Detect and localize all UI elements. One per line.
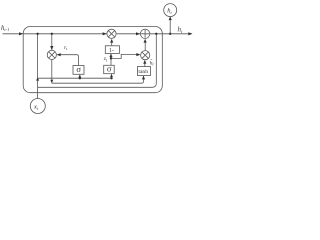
arrow: output right end bbox=[188, 32, 192, 35]
wire: output h line right bbox=[150, 33, 192, 35]
arrow: r into reset multiply bbox=[57, 53, 61, 56]
wire: sigma-r input stub bbox=[79, 75, 81, 78]
junction dot z branch bbox=[110, 57, 112, 59]
wire: h(t-1) input line left bbox=[3, 33, 23, 35]
junction dot J1 bbox=[36, 33, 38, 35]
arrow: x_t up onto bus junction bbox=[36, 77, 39, 80]
multiply node z bbox=[141, 51, 150, 60]
wire: between multiply and plus bbox=[117, 33, 140, 35]
arrow: down into reset multiply bbox=[50, 46, 53, 50]
h_t output circle bbox=[164, 4, 177, 17]
junction dot J3 feedback bbox=[155, 33, 157, 35]
wire: sigma-z riser to 1- box bbox=[110, 54, 112, 66]
svg-text:1-: 1- bbox=[109, 48, 114, 54]
multiply node reset (circle-x) bbox=[47, 50, 56, 59]
wire: sigma-z input stub bbox=[111, 74, 113, 78]
wire: r line from sigma-r to reset multiply bbox=[58, 55, 79, 66]
arrow: 1- output into multiply bbox=[110, 39, 113, 43]
wire: top h line inside cell bbox=[23, 33, 106, 35]
svg-text:xt: xt bbox=[33, 104, 39, 111]
sigma-z gate box bbox=[104, 65, 115, 73]
wire: tanh output to multiply z bbox=[144, 61, 146, 67]
arrow: x bus up into sigma-z bbox=[110, 74, 113, 77]
wire: multiply z up to plus bbox=[144, 40, 146, 51]
junction dot x bus sigma-r bbox=[79, 77, 81, 79]
arrow: into plus bbox=[136, 32, 140, 35]
wire: x/h bus bbox=[38, 77, 112, 79]
wire: z line to multiply right bbox=[111, 54, 137, 58]
arrow: multiply z output up into plus bbox=[144, 39, 147, 43]
one-minus box bbox=[105, 46, 119, 54]
arrow: z up into 1- box bbox=[109, 54, 112, 58]
tanh box bbox=[138, 67, 151, 76]
node J2 branch down to reset multiply bbox=[51, 34, 53, 50]
junction dot x bus sigma-z bbox=[110, 77, 112, 79]
wire: branch up to h_t circle bbox=[169, 17, 171, 34]
arrow: x bus up into tanh bbox=[142, 76, 145, 80]
arrowheads bbox=[19, 16, 193, 83]
arrow: reset multiply output down onto bus bbox=[50, 80, 53, 83]
svg-text:σ: σ bbox=[76, 64, 81, 74]
arrow: up into h_t circle bbox=[169, 16, 172, 20]
svg-text:ht: ht bbox=[167, 8, 172, 15]
node J1 branch down / x_t vertical bbox=[37, 34, 39, 99]
arrow: into multiply (1-z) bbox=[103, 32, 107, 35]
plus node bbox=[140, 29, 149, 38]
arrow: h(t-1) into cell bbox=[19, 32, 23, 35]
svg-text:rt: rt bbox=[64, 45, 68, 51]
x_t input circle bbox=[30, 99, 45, 114]
wire: 1- box output up into multiply bbox=[111, 40, 113, 46]
GRU cell boundary bbox=[23, 27, 162, 93]
junction dot J4 to h circle bbox=[169, 33, 171, 35]
svg-text:σ: σ bbox=[107, 64, 112, 74]
wire: feedback from output down and left bbox=[38, 34, 157, 88]
svg-text:tanh: tanh bbox=[138, 69, 148, 75]
svg-text:zt: zt bbox=[103, 56, 108, 62]
junction dot J2 bbox=[51, 33, 53, 35]
wire: reset multiply output bus to tanh bbox=[52, 60, 144, 84]
svg-text:ht: ht bbox=[178, 26, 184, 35]
text labels bbox=[1, 8, 183, 111]
arrow: tanh output into multiply z bbox=[143, 60, 146, 64]
arrow: x bus up into sigma-r bbox=[78, 75, 81, 78]
svg-text:ht-1: ht-1 bbox=[1, 25, 9, 32]
multiply node (1-z) top bbox=[107, 29, 116, 38]
svg-text:h̃t: h̃t bbox=[150, 59, 155, 66]
sigma-r gate box bbox=[73, 66, 84, 75]
arrow: z right into multiply z bbox=[136, 53, 140, 56]
